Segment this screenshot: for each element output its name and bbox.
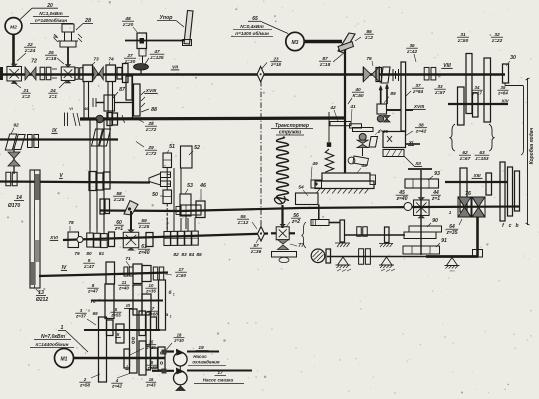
svg-text:z=55: z=55 <box>110 313 121 318</box>
gearbox 87 <box>104 95 115 111</box>
svg-text:72: 72 <box>31 59 37 65</box>
svg-text:z=37: z=37 <box>75 314 86 319</box>
svg-text:z=42: z=42 <box>415 129 427 135</box>
sliding gear 79 <box>89 119 91 233</box>
svg-text:z=42: z=42 <box>406 49 418 54</box>
svg-text:z=1: z=1 <box>431 196 440 202</box>
coupling on shaft VII <box>40 67 45 80</box>
box 52 <box>181 146 193 168</box>
svg-text:z=18: z=18 <box>270 62 281 67</box>
coupling on lower line <box>359 249 364 265</box>
tall gear on shaft II <box>146 312 151 370</box>
svg-text:36: 36 <box>409 43 415 48</box>
conveyor drive base <box>272 252 297 258</box>
gear 8 z=47 <box>105 284 114 319</box>
gears 4 z=42 and 6 on shaft I <box>139 341 146 375</box>
thick vertical feed link <box>476 216 479 257</box>
svg-text:z=40: z=40 <box>138 250 150 256</box>
svg-text:4: 4 <box>115 378 119 383</box>
svg-text:К=50: К=50 <box>352 93 363 99</box>
bevel lever 58-59 <box>124 201 138 216</box>
svg-text:ХII: ХII <box>414 161 421 166</box>
carriage base plates <box>322 173 370 181</box>
vertical shaft XII <box>420 170 422 255</box>
svg-text:z=77: z=77 <box>147 365 158 370</box>
svg-text:z=36: z=36 <box>145 289 156 294</box>
svg-text:z=40: z=40 <box>396 196 408 202</box>
gear 33 z=57 <box>458 87 465 125</box>
bearing support right <box>381 257 392 265</box>
lever 86 <box>338 33 355 53</box>
svg-text:82: 82 <box>173 252 179 258</box>
svg-text:z=47: z=47 <box>83 264 95 269</box>
svg-text:z=22: z=22 <box>491 38 503 44</box>
svg-text:93: 93 <box>434 171 440 177</box>
svg-text:23: 23 <box>272 57 279 62</box>
gear pair on shaft IV <box>133 264 142 284</box>
gear 10 z=36 <box>142 294 151 315</box>
svg-text:III: III <box>126 303 130 308</box>
svg-text:z=25: z=25 <box>113 197 125 203</box>
sliding gear 81 <box>103 119 105 234</box>
svg-text:79: 79 <box>74 251 80 256</box>
small gear on shaft VI <box>96 115 104 123</box>
worm 27 assembly <box>353 128 374 132</box>
svg-text:5: 5 <box>115 307 118 312</box>
coolant pump 19 <box>174 352 188 366</box>
helical gears 92 <box>5 134 16 150</box>
svg-text:11: 11 <box>122 280 127 285</box>
svg-text:87: 87 <box>119 87 126 93</box>
gear on intermediate shaft <box>385 227 390 243</box>
gear 62 z=67 <box>460 168 467 212</box>
svg-text:19: 19 <box>53 35 57 39</box>
worm gearbox 24-25 on shaft VII <box>61 67 75 81</box>
lower horizontal drive line <box>327 256 426 258</box>
helical gear on shaft VIII <box>381 67 390 83</box>
cone coupling between 73 and 74 <box>94 67 98 80</box>
svg-text:2: 2 <box>83 377 87 382</box>
svg-text:z=12: z=12 <box>237 220 249 226</box>
svg-text:М2: М2 <box>10 24 17 30</box>
svg-text:78: 78 <box>68 220 74 226</box>
shaft VII left end <box>0 67 3 80</box>
pump drive column 15-16 <box>158 347 165 370</box>
svg-text:84: 84 <box>189 252 195 258</box>
svg-text:41: 41 <box>349 104 356 110</box>
svg-text:Ø170: Ø170 <box>8 203 20 209</box>
coupling on shaft VIII <box>424 67 429 80</box>
svg-text:6: 6 <box>151 360 154 365</box>
svg-text:М3: М3 <box>292 40 299 46</box>
bearing support <box>447 258 458 266</box>
svg-text:49: 49 <box>311 161 318 167</box>
gear 32 z=22 <box>484 58 491 122</box>
gear 31 z=50 <box>466 54 472 114</box>
svg-text:II: II <box>117 332 120 337</box>
svg-text:М1: М1 <box>61 357 68 363</box>
brace 62-63 <box>450 124 455 151</box>
svg-text:с: с <box>509 223 512 229</box>
bevel pair 77 <box>278 240 289 245</box>
svg-text:охлаждения: охлаждения <box>192 359 220 364</box>
svg-text:89: 89 <box>390 91 396 97</box>
gears 36-37 tall <box>401 62 406 131</box>
gear 74 <box>106 65 116 82</box>
dash-dot link line <box>260 81 262 226</box>
svg-text:z=35: z=35 <box>446 230 458 236</box>
output splines f c b <box>500 162 505 221</box>
shaft XVIII line <box>387 109 402 111</box>
worm 45 z=40 <box>404 203 412 211</box>
svg-text:43: 43 <box>360 163 367 169</box>
svg-text:1: 1 <box>449 210 452 215</box>
svg-text:z=25: z=25 <box>138 224 150 230</box>
svg-text:3: 3 <box>80 308 83 313</box>
gear 5 z=55 <box>116 324 124 343</box>
svg-text:8: 8 <box>92 283 95 288</box>
worm unit 28 <box>62 24 74 32</box>
gear on shaft XVI <box>109 232 115 247</box>
shaft II line <box>84 329 160 331</box>
gear 73 <box>83 65 93 82</box>
box 49 <box>311 180 322 188</box>
svg-text:7: 7 <box>152 306 155 311</box>
gearbox 38 z=42 <box>383 132 406 148</box>
svg-text:n=1400 об/мин: n=1400 об/мин <box>235 30 269 36</box>
svg-text:1: 1 <box>173 293 175 297</box>
gear 63 z=153 <box>486 173 492 195</box>
coupling 17 z=60 <box>153 267 157 280</box>
svg-text:z=2: z=2 <box>291 219 300 225</box>
gear 46 <box>196 201 205 218</box>
shift fork on shaft V <box>149 174 161 186</box>
svg-text:z=47: z=47 <box>87 289 98 294</box>
diamond node 55-57 on shaft XVI <box>258 227 265 242</box>
spring hanger 49 <box>328 112 330 142</box>
disc 14 dia 170 / 13 dia 212 column <box>30 170 40 288</box>
svg-text:Насос: Насос <box>193 354 207 359</box>
shaft XVI line <box>63 234 268 241</box>
feed drive shaft line <box>100 207 519 212</box>
cone drive 76 <box>458 197 471 217</box>
diamond node 23 on shaft VII <box>257 67 264 82</box>
worm gearbox 56 z=2 <box>276 227 289 240</box>
svg-text:z=40: z=40 <box>118 286 129 291</box>
stop lever Upor <box>184 11 193 45</box>
coupling after box 24 <box>75 68 78 80</box>
svg-text:33: 33 <box>437 84 443 89</box>
lube pump 17 <box>174 371 188 385</box>
box 53 <box>180 194 191 216</box>
svg-text:z=43: z=43 <box>146 382 157 387</box>
svg-text:z=18: z=18 <box>45 56 57 62</box>
svg-text:z=20: z=20 <box>122 22 134 28</box>
svg-text:z=1: z=1 <box>114 226 123 232</box>
gear 34 <box>473 93 479 117</box>
gear 7 z=68 <box>139 311 146 336</box>
svg-text:42: 42 <box>329 105 336 111</box>
svg-text:54: 54 <box>298 185 304 191</box>
bevel gear pair 75 <box>363 67 371 82</box>
svg-text:z=30: z=30 <box>173 338 184 343</box>
svg-text:88: 88 <box>151 107 157 113</box>
svg-text:z=17: z=17 <box>471 91 482 96</box>
svg-text:46: 46 <box>199 183 206 189</box>
svg-text:69: 69 <box>92 311 98 316</box>
svg-text:z=36: z=36 <box>250 249 262 255</box>
shaft XIII line <box>445 181 507 183</box>
svg-text:z=84: z=84 <box>412 89 424 94</box>
svg-text:z=42: z=42 <box>111 384 122 389</box>
svg-text:51: 51 <box>169 144 175 150</box>
shaft III line <box>91 299 163 301</box>
svg-text:z=67: z=67 <box>459 156 471 162</box>
sliding gear 80 <box>96 119 98 233</box>
Korobka podach bracket <box>527 78 529 225</box>
worm gearbox 21-22 on shaft VII <box>7 66 22 81</box>
shaft XIV line <box>448 103 508 105</box>
shaft I line <box>74 357 166 360</box>
svg-text:Коробка подач: Коробка подач <box>528 128 535 165</box>
svg-text:ХVIII: ХVIII <box>413 104 425 109</box>
svg-text:z=1: z=1 <box>48 94 57 100</box>
coupling 71 <box>124 267 128 276</box>
svg-text:92: 92 <box>13 123 19 129</box>
bearing support left <box>338 257 349 265</box>
gear 48 z=20 <box>137 33 147 49</box>
motor M3 <box>286 32 304 50</box>
svg-text:34: 34 <box>475 85 480 90</box>
svg-text:75: 75 <box>366 56 372 62</box>
shaft VI line <box>80 118 346 119</box>
svg-text:f: f <box>502 223 505 229</box>
svg-text:n=1400об/мин: n=1400об/мин <box>35 17 67 23</box>
rack under box 38 <box>383 150 404 157</box>
box 54 <box>296 193 319 205</box>
stop-lever shaft with gear 48 <box>125 40 184 42</box>
svg-text:80: 80 <box>86 251 92 256</box>
svg-text:'''''': '''''' <box>450 270 455 274</box>
svg-text:19: 19 <box>198 345 204 351</box>
svg-text:z=72: z=72 <box>145 127 157 133</box>
svg-text:ХIII: ХIII <box>472 173 481 178</box>
svg-text:30: 30 <box>510 55 516 61</box>
gear 3 z=37 / 2 z=58 tall <box>99 317 107 382</box>
bevel gearbox 60 z=1 <box>123 232 139 248</box>
svg-text:Ø212: Ø212 <box>36 297 48 303</box>
clutch box 50 <box>163 190 172 204</box>
svg-text:z=18: z=18 <box>319 62 331 68</box>
svg-text:85: 85 <box>196 252 202 258</box>
worm gearbox 44 z=1 <box>414 200 430 216</box>
svg-text:52: 52 <box>194 145 200 151</box>
svg-text:81: 81 <box>99 251 105 256</box>
coolant pump feed line <box>162 350 174 352</box>
svg-text:1: 1 <box>170 315 172 319</box>
gear 11 z=40 <box>133 285 142 315</box>
svg-text:10: 10 <box>149 283 154 288</box>
svg-text:z=2: z=2 <box>364 35 373 41</box>
vertical shafts VI to XVI <box>89 119 91 230</box>
svg-text:74: 74 <box>108 57 114 63</box>
shaft V line <box>0 182 150 183</box>
svg-text:15: 15 <box>149 340 154 345</box>
svg-text:z=57: z=57 <box>434 90 446 95</box>
vertical shaft from lever 86 <box>344 50 346 173</box>
svg-text:17: 17 <box>217 370 223 376</box>
coupling box 93 <box>405 179 439 188</box>
svg-text:17: 17 <box>178 267 184 272</box>
svg-text:z=153: z=153 <box>474 156 489 162</box>
svg-text:Транспортер: Транспортер <box>275 123 309 129</box>
svg-text:91: 91 <box>441 238 447 244</box>
svg-text:b: b <box>515 223 518 229</box>
bevel pair under 92 <box>8 152 20 159</box>
svg-text:z=60: z=60 <box>175 273 187 278</box>
svg-text:стружки: стружки <box>279 130 301 136</box>
link from box 54 <box>318 205 320 221</box>
motor M1 <box>55 349 74 368</box>
cam bar 91 <box>403 246 440 254</box>
svg-text:16: 16 <box>149 377 154 382</box>
fast-drive motor circle <box>311 249 325 263</box>
cam bar 42 <box>330 122 351 126</box>
clutch box 51 <box>163 153 172 168</box>
cone drive 64 z=35 <box>472 197 485 217</box>
link wire from gear 30 <box>523 86 525 150</box>
svg-text:50: 50 <box>152 192 158 198</box>
gear 88 on shaft XVIII <box>134 84 141 116</box>
cam bar 90 <box>409 226 442 232</box>
clutch column b1-a1 <box>159 280 166 330</box>
svg-text:z=30: z=30 <box>146 345 157 350</box>
svg-text:z=30: z=30 <box>124 59 136 65</box>
gear 68 <box>124 349 130 368</box>
coupling 72 <box>25 67 30 80</box>
shaft VII main line <box>2 73 505 76</box>
svg-text:б: б <box>169 289 173 296</box>
svg-text:z=64: z=64 <box>497 91 508 96</box>
svg-text:а: а <box>166 313 169 318</box>
conveyor screw coil <box>277 137 289 201</box>
svg-text:N=7,0кВт: N=7,0кВт <box>41 334 66 340</box>
svg-text:53: 53 <box>187 183 193 189</box>
svg-text:76: 76 <box>465 191 471 197</box>
svg-text:18: 18 <box>177 333 182 338</box>
cylinder on intermediate row <box>311 220 329 226</box>
svg-text:73: 73 <box>93 57 99 63</box>
splined sleeve column <box>130 309 138 373</box>
svg-text:z=72: z=72 <box>145 151 157 157</box>
svg-text:9: 9 <box>88 258 91 263</box>
gear 30 <box>503 64 509 83</box>
box 78 <box>68 232 79 248</box>
cam bar 41 <box>350 124 362 128</box>
svg-text:Насос смазки: Насос смазки <box>203 378 234 383</box>
svg-text:83: 83 <box>181 252 187 258</box>
svg-text:ХIV: ХIV <box>500 99 509 104</box>
svg-text:37: 37 <box>415 83 421 88</box>
svg-text:VI: VI <box>69 107 73 111</box>
shaft IX line <box>0 138 118 140</box>
thick feed link line <box>426 255 478 258</box>
svg-text:90: 90 <box>432 218 438 224</box>
svg-text:z=125: z=125 <box>149 55 164 61</box>
svg-text:70: 70 <box>90 299 96 304</box>
motor M2 <box>5 18 22 35</box>
svg-text:z=2: z=2 <box>21 94 30 100</box>
motor M3 shaft <box>305 40 342 44</box>
vertical shafts between VII and VI <box>83 82 85 119</box>
svg-text:n=1440об/мин: n=1440об/мин <box>35 341 68 348</box>
gear 89 box <box>377 104 387 114</box>
gear with support on intermediate row <box>340 220 345 242</box>
intermediate shaft line <box>345 234 406 236</box>
shaft IV line <box>39 273 168 277</box>
gear on shaft VII at x122 <box>123 64 129 83</box>
svg-text:z=58: z=58 <box>79 383 90 388</box>
cylinder box on feed shaft <box>176 207 181 215</box>
coupling on intermediate shaft <box>357 227 362 237</box>
worm wheel 47 z=125 <box>134 64 149 71</box>
gear 9 z=47 <box>106 262 115 284</box>
gear 61 z=40 <box>146 233 153 247</box>
sliding gears 82 83 84 85 <box>166 218 168 232</box>
svg-text:z=50: z=50 <box>457 38 469 44</box>
